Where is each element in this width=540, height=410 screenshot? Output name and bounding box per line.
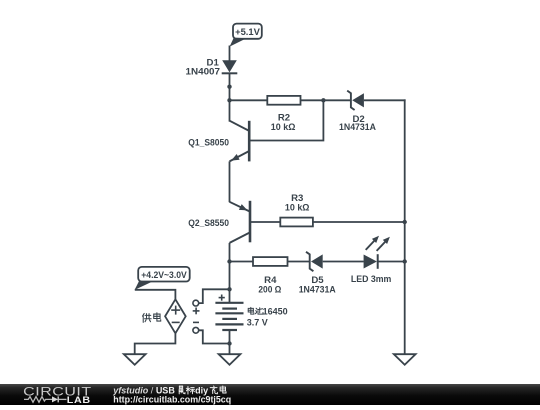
ground bbox=[394, 354, 416, 365]
terminal + bbox=[193, 300, 199, 306]
transistor Q2 S8550 bbox=[188, 201, 250, 243]
CircuitLab logo bbox=[23, 384, 92, 406]
wire bbox=[135, 290, 176, 300]
junction bbox=[227, 341, 231, 345]
wire bbox=[250, 221, 281, 223]
battery 电池16450 bbox=[215, 295, 243, 331]
svg-text:10 kΩ: 10 kΩ bbox=[285, 203, 310, 214]
footer bar bbox=[0, 384, 540, 405]
svg-text:1N4731A: 1N4731A bbox=[339, 122, 376, 133]
svg-text:LAB: LAB bbox=[67, 395, 91, 405]
wire bbox=[249, 100, 323, 140]
wire bbox=[288, 261, 310, 263]
wire bbox=[135, 333, 176, 354]
wire bbox=[364, 99, 406, 101]
zener diode D2 bbox=[339, 91, 376, 134]
resistor R4 bbox=[253, 257, 288, 296]
wire bbox=[301, 99, 351, 101]
junction bbox=[227, 85, 231, 89]
LED 3mm bbox=[351, 236, 392, 286]
terminal - bbox=[193, 327, 199, 333]
svg-text:Q1_S8050: Q1_S8050 bbox=[188, 137, 229, 148]
voltage source 供电 bbox=[165, 299, 186, 333]
wire bbox=[199, 330, 230, 343]
svg-text:LED 3mm: LED 3mm bbox=[351, 274, 392, 285]
svg-text:http://circuitlab.com/c9tj5cq: http://circuitlab.com/c9tj5cq bbox=[113, 395, 231, 405]
diode D1 bbox=[186, 58, 238, 78]
svg-text:+4.2V~3.0V: +4.2V~3.0V bbox=[141, 270, 187, 280]
label battery value bbox=[248, 307, 263, 314]
net flag +5.1V bbox=[230, 24, 262, 47]
junction bbox=[227, 287, 231, 291]
wire bbox=[230, 99, 268, 101]
svg-text:1N4007: 1N4007 bbox=[186, 66, 221, 77]
wire bbox=[404, 99, 406, 354]
resistor R3 bbox=[280, 193, 313, 226]
ground bbox=[219, 354, 241, 365]
wire bbox=[199, 289, 230, 303]
junction bbox=[403, 259, 407, 263]
ground bbox=[124, 354, 146, 365]
wire bbox=[229, 73, 231, 121]
wire bbox=[229, 161, 231, 202]
wire bbox=[378, 261, 405, 263]
zener diode D5 bbox=[299, 252, 336, 296]
resistor R2 bbox=[267, 96, 300, 133]
svg-text:3.7 V: 3.7 V bbox=[247, 317, 269, 328]
net flag +4.2V~3.0V bbox=[135, 267, 190, 290]
wire bbox=[230, 261, 254, 263]
junction bbox=[321, 98, 325, 102]
junction bbox=[403, 220, 407, 224]
svg-text:1N4731A: 1N4731A bbox=[299, 285, 336, 296]
svg-text:Q2_S8550: Q2_S8550 bbox=[188, 218, 229, 229]
svg-text:10 kΩ: 10 kΩ bbox=[271, 122, 296, 133]
junction bbox=[227, 98, 231, 102]
wire bbox=[229, 46, 231, 62]
svg-text:16450: 16450 bbox=[263, 306, 288, 317]
transistor Q1 S8050 bbox=[188, 121, 249, 162]
svg-text:200 Ω: 200 Ω bbox=[258, 285, 281, 296]
wire bbox=[229, 330, 231, 354]
svg-text:+5.1V: +5.1V bbox=[235, 26, 261, 37]
wire bbox=[323, 261, 364, 263]
label 供电 bbox=[142, 313, 160, 323]
junction bbox=[227, 259, 231, 263]
wire bbox=[313, 221, 405, 223]
wire bbox=[229, 243, 231, 303]
